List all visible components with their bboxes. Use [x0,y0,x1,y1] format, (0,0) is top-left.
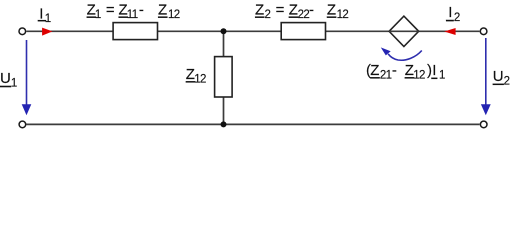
svg-text:-: - [139,1,144,18]
svg-text:Z: Z [255,1,264,18]
svg-text:I: I [39,5,43,22]
svg-text:I: I [432,62,436,79]
label source value (Z21 - Z12)I1 [366,62,445,81]
label Z12 shunt [186,66,206,85]
svg-text:1: 1 [95,9,101,21]
label I1 [38,5,51,24]
terminal port1 top [19,28,26,35]
wire top rail [26,30,479,32]
svg-text:2: 2 [504,75,510,87]
voltage arrow U1 [26,40,28,106]
svg-text:Z: Z [158,1,167,18]
svg-text:I: I [448,4,452,21]
label U2 [493,68,510,87]
svg-text:1: 1 [45,13,51,25]
current arrow I1 [42,28,52,36]
wire bottom rail [26,123,479,125]
terminal port2 top [480,28,487,35]
node junction bottom [221,121,227,127]
voltage arrow U2 [485,38,487,106]
svg-text:Z: Z [289,1,298,18]
node junction top [221,28,227,34]
svg-text:-: - [392,62,397,79]
source rotation arrow [388,51,422,61]
svg-text:2: 2 [265,9,271,21]
svg-text:U: U [493,68,504,85]
svg-text:Z: Z [327,1,336,18]
wire shunt upper segment [223,31,225,57]
resistor Z2 [281,23,325,40]
svg-text:U: U [0,70,11,87]
svg-text:1: 1 [11,78,17,90]
svg-text:12: 12 [194,73,206,85]
svg-text:=: = [106,1,115,18]
terminal port2 bottom [480,121,487,128]
svg-text:12: 12 [337,9,349,21]
svg-text:-: - [309,1,314,18]
label U1 [0,70,17,89]
controlled source U1 diamond [389,16,419,46]
svg-text:1: 1 [439,69,445,81]
svg-text:Z: Z [370,62,379,79]
svg-text:22: 22 [298,9,310,21]
resistor Z12 [215,57,233,97]
svg-text:=: = [276,1,285,18]
svg-text:): ) [427,62,432,79]
svg-text:11: 11 [127,9,138,21]
svg-text:2: 2 [454,12,460,24]
label Z2 = Z22 - Z12 [255,1,348,20]
wire through source [389,30,419,32]
svg-text:12: 12 [168,9,180,21]
wire shunt lower segment [223,97,225,125]
terminal port1 bottom [19,121,26,128]
label Z1 = Z11 - Z12 [87,1,180,20]
label I2 [446,4,460,24]
resistor Z1 [113,23,157,40]
svg-text:12: 12 [413,69,425,81]
svg-text:21: 21 [380,69,392,81]
current arrow I2 [444,28,455,35]
